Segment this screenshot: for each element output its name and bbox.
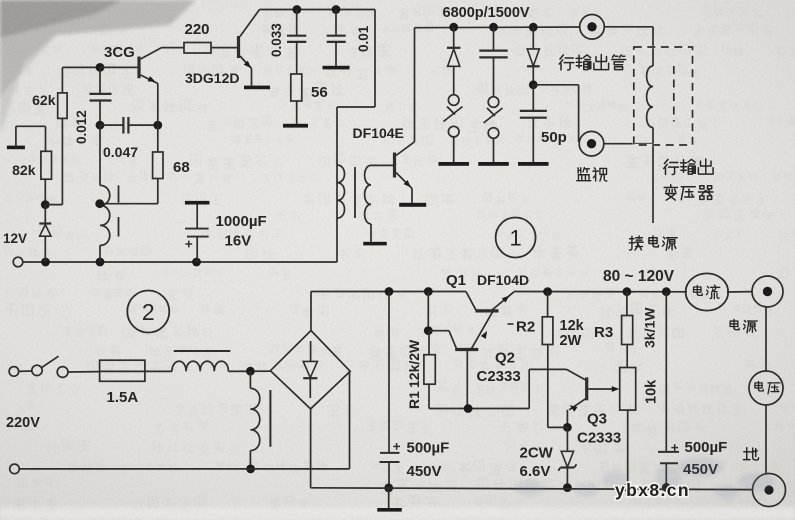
svg-text:0.047: 0.047 [103, 144, 138, 160]
svg-text:220: 220 [185, 21, 210, 38]
svg-text:12k/2W: 12k/2W [406, 339, 422, 388]
svg-text:R1: R1 [406, 391, 422, 409]
svg-text:C2333: C2333 [477, 368, 521, 385]
svg-text:500µF: 500µF [685, 439, 728, 456]
svg-text:2: 2 [142, 299, 155, 325]
svg-text:82k: 82k [12, 162, 36, 178]
svg-text:0.012: 0.012 [74, 110, 89, 144]
svg-text:6.6V: 6.6V [520, 463, 551, 480]
svg-text:12k: 12k [560, 318, 585, 334]
svg-text:Q1: Q1 [446, 272, 466, 289]
svg-text:R2: R2 [516, 319, 535, 336]
svg-text:DF104E: DF104E [353, 125, 404, 141]
svg-text:3CG: 3CG [104, 44, 135, 61]
svg-text:62k: 62k [32, 92, 56, 108]
svg-text:2W: 2W [560, 333, 582, 349]
svg-text:0.01: 0.01 [356, 25, 371, 52]
svg-text:10k: 10k [644, 379, 660, 404]
svg-text:500µF: 500µF [407, 440, 450, 457]
svg-text:3DG12D: 3DG12D [185, 70, 239, 86]
svg-text:68: 68 [173, 159, 190, 176]
svg-text:3k/1W: 3k/1W [642, 307, 658, 348]
svg-text:R3: R3 [594, 324, 613, 341]
svg-text:80 ~ 120V: 80 ~ 120V [603, 268, 675, 285]
svg-text:1000µF: 1000µF [216, 213, 267, 230]
svg-text:6800p/1500V: 6800p/1500V [443, 5, 530, 21]
svg-text:56: 56 [311, 84, 328, 101]
svg-text:50p: 50p [541, 129, 567, 146]
svg-text:0.033: 0.033 [269, 23, 284, 57]
svg-text:DF104D: DF104D [477, 272, 529, 288]
svg-text:1: 1 [509, 226, 521, 251]
svg-text:ybx8.cn: ybx8.cn [615, 480, 690, 500]
svg-text:16V: 16V [225, 233, 252, 250]
svg-text:12V: 12V [3, 231, 27, 246]
svg-text:1.5A: 1.5A [107, 389, 139, 406]
svg-text:Q2: Q2 [495, 350, 515, 367]
svg-text:C2333: C2333 [577, 430, 621, 447]
svg-text:Q3: Q3 [587, 411, 607, 428]
svg-text:2CW: 2CW [520, 445, 554, 462]
svg-text:220V: 220V [6, 415, 40, 431]
svg-text:450V: 450V [407, 463, 442, 480]
